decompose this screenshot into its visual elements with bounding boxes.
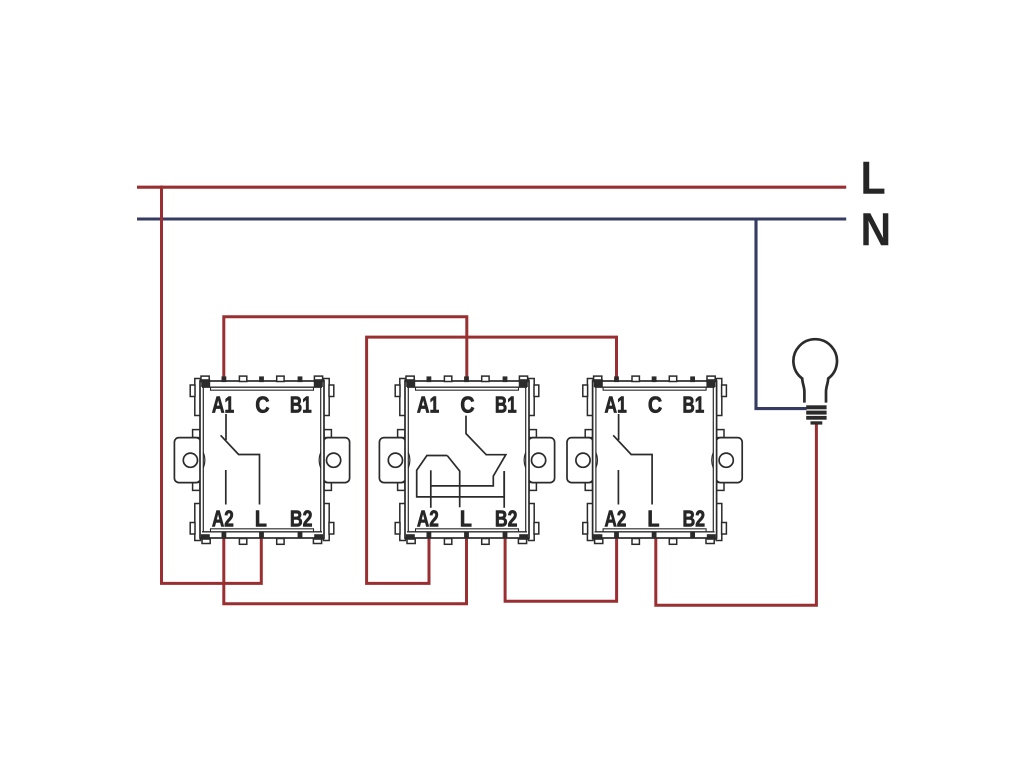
wire L feed to SW1 L terminal [162,186,262,584]
switch SW2 [379,376,554,544]
lamp screw base [806,405,826,424]
wire L bus (red) [137,186,846,189]
wire SW2 B2 to SW3 A2 [505,536,616,601]
wire N bus (blue) [137,217,846,220]
label L [863,162,884,194]
wire SW3 L to lamp [656,424,817,605]
lamp bulb [793,339,837,402]
SW1 two-way contact mechanism [221,414,260,505]
label N [863,213,888,245]
switch SW1 [174,376,349,544]
switch SW3 [567,376,742,544]
wire SW1 A1 to SW2 C [224,317,467,382]
SW2 intermediate switch mechanism [417,416,506,508]
wire SW1 A2 to SW2 L [224,536,467,604]
wire SW3 A1 to SW2 A2 [367,337,617,583]
wire N to lamp (blue) [756,219,807,409]
SW3 two-way contact mechanism [613,414,652,505]
